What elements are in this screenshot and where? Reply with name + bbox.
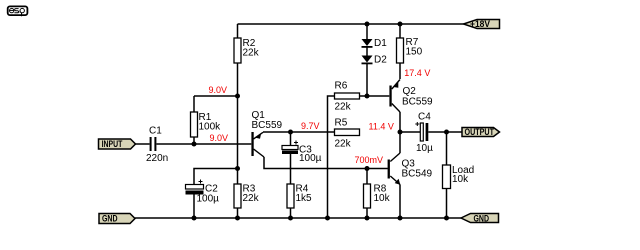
node dot rail R8 bbox=[365, 216, 370, 221]
svg-text:C1: C1 bbox=[149, 126, 162, 137]
transistor Q3 bbox=[388, 153, 433, 185]
svg-text:150: 150 bbox=[406, 47, 423, 58]
node dot R7 top rail bbox=[398, 22, 403, 27]
wire diode column bbox=[366, 24, 368, 96]
wire Q1 collector bbox=[264, 157, 388, 169]
svg-text:GND: GND bbox=[102, 214, 118, 224]
node dot C3 top bbox=[288, 130, 293, 135]
svg-text:BC549: BC549 bbox=[402, 169, 433, 180]
node dot rail R3 bbox=[235, 216, 240, 221]
wire R6 right to Q2 base bbox=[360, 95, 390, 97]
svg-text:GND: GND bbox=[474, 214, 490, 224]
wire 11.4V node to C4 bbox=[400, 131, 420, 133]
svg-text:100µ: 100µ bbox=[299, 153, 322, 164]
svg-text:9.0V: 9.0V bbox=[209, 85, 228, 95]
port INPUT bbox=[99, 139, 136, 149]
node dot rail R4 bbox=[288, 216, 293, 221]
svg-text:1k5: 1k5 bbox=[296, 193, 313, 204]
port OUTPUT bbox=[462, 127, 500, 137]
node dot Q2 base bbox=[365, 94, 370, 99]
wire load column bbox=[446, 132, 448, 218]
node dot rail Q3e bbox=[398, 216, 403, 221]
svg-text:100k: 100k bbox=[199, 122, 222, 133]
svg-text:22k: 22k bbox=[243, 48, 260, 59]
node dot 11.4V bbox=[398, 130, 403, 135]
svg-text:17.4 V: 17.4 V bbox=[404, 68, 430, 78]
resistor R5 bbox=[335, 118, 360, 150]
capacitor C1 bbox=[146, 126, 168, 165]
svg-text:22k: 22k bbox=[335, 139, 352, 150]
port GND right bbox=[461, 214, 499, 224]
svg-text:OUTPUT: OUTPUT bbox=[465, 127, 495, 137]
svg-text:10µ: 10µ bbox=[416, 143, 433, 154]
resistor Load bbox=[443, 165, 475, 189]
port GND left bbox=[99, 214, 135, 224]
wire Q1 emitter node bbox=[263, 131, 335, 133]
node dot 9.0V bbox=[235, 94, 240, 99]
port +18V bbox=[464, 19, 500, 29]
node dot diode top rail bbox=[365, 22, 370, 27]
node dot C2/divider bbox=[235, 166, 240, 171]
svg-text:R5: R5 bbox=[335, 118, 348, 129]
wire Q2 collector to 11.4V node bbox=[399, 112, 401, 132]
wire bottom rail bbox=[135, 217, 461, 219]
svg-text:22k: 22k bbox=[243, 193, 260, 204]
svg-text:9.7V: 9.7V bbox=[301, 121, 320, 131]
wire R6 left to ground column bbox=[328, 96, 335, 218]
esp logo bbox=[8, 6, 28, 16]
svg-text:+18V: +18V bbox=[470, 19, 490, 29]
svg-text:11.4 V: 11.4 V bbox=[369, 122, 394, 132]
resistor R7 bbox=[397, 37, 423, 63]
svg-text:Q2: Q2 bbox=[403, 86, 417, 97]
resistor R6 bbox=[335, 81, 360, 113]
node dot 700mV bbox=[365, 166, 370, 171]
wire C3 column bbox=[290, 132, 292, 218]
resistor R2 bbox=[234, 38, 260, 63]
wire Q3 collector bbox=[399, 132, 401, 153]
transistor Q2 bbox=[389, 80, 433, 113]
capacitor C3 bbox=[282, 141, 322, 165]
resistor R3 bbox=[234, 184, 260, 209]
transistor Q1 bbox=[251, 110, 282, 157]
svg-text:22k: 22k bbox=[335, 101, 352, 112]
node dot R1 base junction bbox=[192, 142, 197, 147]
resistor R1 bbox=[191, 112, 222, 137]
svg-text:C4: C4 bbox=[418, 111, 431, 122]
svg-text:R6: R6 bbox=[335, 81, 348, 92]
svg-text:10k: 10k bbox=[374, 193, 391, 204]
capacitor C2 bbox=[186, 180, 220, 205]
svg-text:700mV: 700mV bbox=[355, 155, 384, 165]
wire R7 column bbox=[399, 24, 401, 79]
node dot rail C2 bbox=[192, 216, 197, 221]
wire R2/R3 divider column bbox=[237, 24, 239, 218]
svg-text:BC559: BC559 bbox=[402, 96, 433, 107]
svg-text:D1: D1 bbox=[374, 38, 387, 49]
diode D1 bbox=[362, 38, 388, 49]
node dot output/load bbox=[444, 130, 449, 135]
wire top rail bbox=[238, 23, 464, 25]
capacitor C4 bbox=[415, 111, 433, 154]
svg-text:BC559: BC559 bbox=[252, 120, 283, 131]
resistor R4 bbox=[287, 184, 312, 209]
wire R8 column bbox=[366, 169, 368, 219]
svg-text:220n: 220n bbox=[146, 153, 168, 164]
svg-text:D2: D2 bbox=[374, 54, 387, 65]
wire C2 stub bbox=[194, 169, 238, 219]
resistor R8 bbox=[364, 183, 391, 208]
svg-text:100µ: 100µ bbox=[197, 194, 220, 205]
wire 9.0V node to R1 bbox=[194, 96, 238, 144]
wire C4 to output bbox=[428, 131, 462, 133]
wire Q3 emitter bbox=[399, 185, 401, 219]
wire C1 to Q1 base bbox=[157, 143, 252, 145]
svg-text:9.0V: 9.0V bbox=[210, 133, 229, 143]
diode D2 bbox=[362, 54, 388, 65]
node dot rail R6gnd bbox=[325, 216, 330, 221]
wire input to C1 bbox=[136, 143, 150, 145]
svg-text:10k: 10k bbox=[452, 174, 469, 185]
node dot rail load bbox=[444, 216, 449, 221]
svg-text:INPUT: INPUT bbox=[102, 139, 123, 149]
